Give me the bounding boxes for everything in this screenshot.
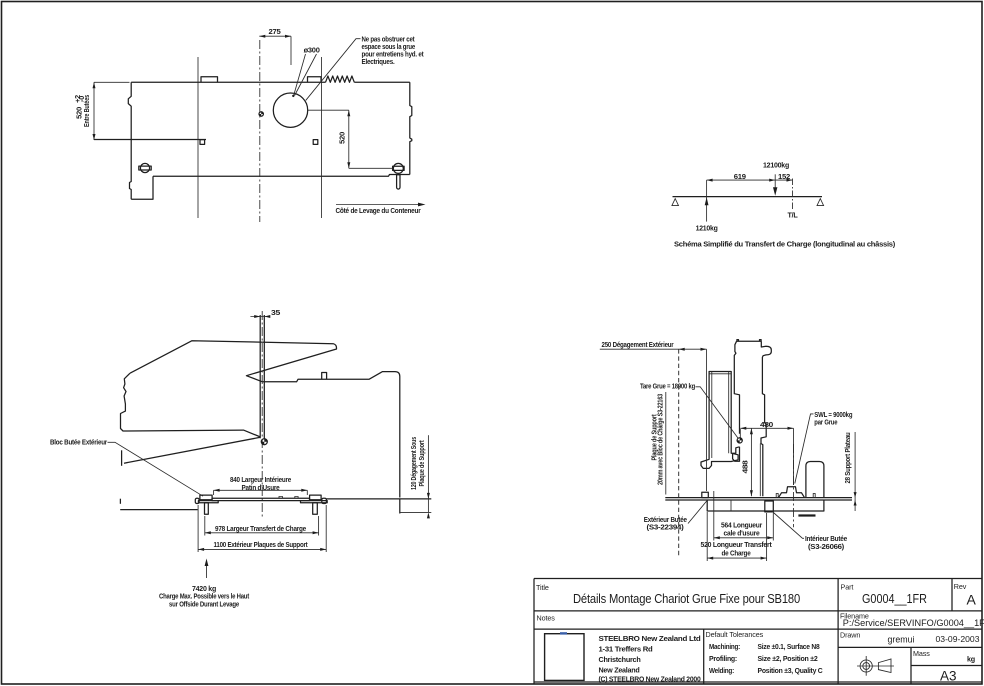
- transverse line 1: [197, 57, 199, 218]
- pivot symbol: [737, 438, 742, 443]
- inner mast column left edge: [734, 341, 739, 434]
- svg-text:New Zealand: New Zealand: [599, 665, 640, 674]
- svg-text:STEELBRO New Zealand Ltd: STEELBRO New Zealand Ltd: [599, 634, 701, 643]
- svg-text:Machining:: Machining:: [709, 642, 740, 651]
- chassis top edge left of break: [131, 81, 325, 83]
- svg-text:A3: A3: [940, 669, 957, 684]
- rotated text underline: [665, 392, 667, 495]
- svg-text:1-31 Treffers Rd: 1-31 Treffers Rd: [599, 645, 653, 654]
- svg-text:275: 275: [269, 27, 281, 36]
- exterior butee leader: [688, 501, 707, 524]
- bump ticks: [776, 494, 815, 498]
- section centerline: [793, 444, 795, 527]
- svg-text:Christchurch: Christchurch: [599, 655, 641, 664]
- svg-text:de Charge: de Charge: [722, 548, 751, 557]
- end cap right: [322, 498, 327, 503]
- dim 28 line: [854, 432, 856, 511]
- dim entre-butees arrows: [93, 82, 96, 140]
- ELEVATION-VIEW: [50, 308, 431, 609]
- T/L centerline: [792, 179, 794, 212]
- support base left tick: [119, 499, 121, 504]
- svg-text:480: 480: [760, 420, 773, 429]
- deck plate: [665, 498, 852, 500]
- crane body outline: [130, 341, 400, 514]
- crane body left edge: [121, 373, 261, 437]
- inner mast inner right line: [759, 444, 761, 497]
- svg-text:Part: Part: [841, 583, 854, 592]
- dim 1100: [198, 505, 326, 552]
- svg-text:1210kg: 1210kg: [696, 224, 718, 233]
- inner mast lower left: [733, 447, 740, 462]
- deck tab: [322, 373, 327, 380]
- leg left: [205, 503, 209, 514]
- svg-text:gremui: gremui: [888, 635, 915, 645]
- logo box: [545, 634, 584, 681]
- block right: [310, 495, 322, 500]
- chassis top edge right of break: [354, 81, 410, 83]
- dim 275 line: [259, 36, 291, 65]
- tare grue leader: [696, 387, 739, 439]
- dim 488: [750, 428, 752, 496]
- end cap left: [195, 498, 199, 503]
- svg-text:Notes: Notes: [537, 613, 556, 622]
- support triangle right: [817, 199, 824, 206]
- inner stop line: [94, 139, 206, 141]
- svg-text:20mm avec Bloc de Charge S3-22: 20mm avec Bloc de Charge S3-22163: [655, 394, 664, 485]
- svg-text:12100kg: 12100kg: [763, 160, 789, 169]
- support base left lower line: [120, 509, 198, 511]
- inner mast column right edge: [761, 341, 771, 496]
- stop square 2: [313, 140, 318, 145]
- transverse line 2: [321, 57, 323, 218]
- SWL leader: [795, 414, 814, 484]
- outrigger end plate: [121, 450, 123, 466]
- lifting side arrow: [336, 204, 420, 206]
- svg-text:cale d'usure: cale d'usure: [724, 528, 760, 537]
- svg-text:Position ±3, Quality C: Position ±3, Quality C: [758, 666, 823, 675]
- outer mast inner lines: [709, 372, 731, 459]
- svg-text:G0004__1FR: G0004__1FR: [862, 591, 927, 606]
- svg-text:Size ±2, Position ±2: Size ±2, Position ±2: [758, 654, 818, 663]
- LOAD-SCHEMATIC: [672, 160, 896, 248]
- svg-text:Profiling:: Profiling:: [709, 654, 737, 663]
- twistlock left: [139, 163, 151, 172]
- PLAN-VIEW: [73, 27, 426, 222]
- svg-text:(S3-26066): (S3-26066): [808, 542, 845, 551]
- title block frame: [534, 579, 982, 685]
- svg-text:A: A: [967, 592, 977, 608]
- bloc butee leader: [108, 442, 204, 496]
- reaction arrow 1210kg: [706, 180, 708, 222]
- dashed datum line: [678, 349, 680, 557]
- wear pad bar: [212, 498, 310, 500]
- dim entre-butees line: [94, 82, 130, 140]
- dim 520: [707, 512, 766, 561]
- svg-text:Welding:: Welding:: [709, 666, 734, 675]
- block left: [200, 495, 212, 500]
- svg-text:Détails Montage Chariot Grue F: Détails Montage Chariot Grue Fixe pour S…: [573, 591, 800, 606]
- dim 520 vertical: [307, 110, 393, 168]
- projection symbol circle: [857, 656, 894, 676]
- svg-text:Plaque de Support: Plaque de Support: [417, 440, 426, 487]
- svg-text:Entre Butées: Entre Butées: [82, 95, 91, 127]
- tab 2 on top edge: [308, 77, 322, 83]
- svg-text:Size ±0.1, Surface N8: Size ±0.1, Surface N8: [758, 642, 820, 651]
- dim 35: [250, 316, 269, 318]
- TITLE-BLOCK: [534, 579, 984, 685]
- D300 leader: [294, 54, 317, 96]
- svg-text:Rev: Rev: [954, 582, 967, 591]
- svg-text:sur Offside Durant Levage: sur Offside Durant Levage: [169, 599, 239, 608]
- stop square 1: [200, 140, 205, 145]
- svg-text:03-09-2003: 03-09-2003: [936, 634, 980, 644]
- max load arrow: [206, 563, 208, 578]
- dim 275 arrows: [259, 35, 291, 38]
- svg-text:Patin d'Usure: Patin d'Usure: [242, 483, 280, 492]
- note leader: [306, 39, 361, 101]
- kingpin symbol: [259, 112, 263, 116]
- break zigzag: [326, 76, 355, 82]
- dim 480: [740, 428, 793, 485]
- load arrow 12100kg: [774, 174, 776, 188]
- chassis right edge: [410, 82, 412, 174]
- interior butee block: [765, 501, 774, 512]
- view centerline: [261, 311, 263, 519]
- svg-text:Default Tolerances: Default Tolerances: [706, 630, 764, 639]
- svg-text:978 Largeur Transfert de Charg: 978 Largeur Transfert de Charge: [215, 524, 306, 533]
- leg right: [313, 503, 318, 514]
- hole circle D300: [273, 93, 307, 127]
- projection symbol cone: [878, 659, 891, 673]
- SECTION-VIEW: [600, 340, 857, 561]
- dim 520 arrows: [347, 110, 350, 168]
- chassis left edge: [128, 82, 131, 199]
- hole center dot: [292, 95, 294, 97]
- svg-text:1100 Extérieur Plaques de Supp: 1100 Extérieur Plaques de Support: [214, 540, 309, 549]
- svg-text:Drawn: Drawn: [840, 631, 860, 640]
- outrigger wing top edge: [124, 437, 260, 463]
- svg-text:T/L: T/L: [788, 211, 799, 220]
- dim 250: [600, 348, 707, 350]
- svg-text:Tare Grue = 18900 kg: Tare Grue = 18900 kg: [640, 382, 695, 391]
- svg-text:Bloc Butée Extérieur: Bloc Butée Extérieur: [50, 438, 107, 447]
- svg-text:28 Support Plateau: 28 Support Plateau: [843, 433, 852, 484]
- svg-text:152: 152: [778, 172, 790, 181]
- wear pad ticks: [279, 497, 298, 499]
- svg-text:ø300: ø300: [304, 46, 320, 55]
- svg-text:Title: Title: [536, 583, 549, 592]
- mast post: [260, 315, 264, 439]
- interior butee leader: [772, 512, 804, 539]
- svg-text:Schéma Simplifié du Transfert: Schéma Simplifié du Transfert de Charge …: [674, 239, 896, 248]
- chassis left lower step: [131, 176, 153, 199]
- SWL load bump: [779, 487, 805, 498]
- dim 840: [214, 490, 308, 495]
- pivot symbol: [261, 439, 267, 445]
- beam: [673, 196, 823, 198]
- stiffener bar: [798, 514, 815, 516]
- tab 1 on top edge: [201, 77, 218, 83]
- support triangle left: [672, 199, 679, 206]
- ext line 250: [706, 349, 708, 491]
- under-plate line right: [400, 511, 432, 513]
- dim 564: [714, 491, 774, 541]
- centerline: [259, 40, 261, 222]
- svg-text:par Grue: par Grue: [814, 418, 837, 427]
- logo mark: [560, 632, 567, 634]
- svg-text:kg: kg: [967, 655, 975, 664]
- plateau support column: [806, 462, 824, 498]
- svg-text:250 Dégagement Extérieur: 250 Dégagement Extérieur: [602, 340, 674, 349]
- svg-text:Mass: Mass: [913, 649, 930, 658]
- support plate left: [198, 501, 218, 503]
- svg-text:P:/Service/SERVINFO/G0004__1F: P:/Service/SERVINFO/G0004__1F: [843, 618, 984, 628]
- deck line right: [326, 498, 431, 500]
- svg-text:619: 619: [734, 172, 746, 181]
- exterior butee block: [702, 492, 709, 497]
- svg-text:35: 35: [271, 308, 280, 317]
- dim 120 line: [427, 435, 429, 512]
- support box inner line: [730, 500, 732, 511]
- outer mast column: [701, 372, 738, 469]
- svg-text:(C) STEELBRO New Zealand 2000: (C) STEELBRO New Zealand 2000: [599, 675, 701, 684]
- dim 152: [787, 179, 793, 182]
- dim 619: [707, 179, 793, 181]
- support plate right: [301, 501, 328, 503]
- svg-text:Côté de Levage du Conteneur: Côté de Levage du Conteneur: [336, 206, 421, 215]
- svg-text:Electriques.: Electriques.: [362, 57, 395, 66]
- support box: [707, 500, 824, 511]
- inner mast top edge: [737, 340, 762, 342]
- svg-text:488: 488: [741, 460, 750, 473]
- chassis bottom right: [153, 175, 410, 177]
- svg-text:(S3-22394): (S3-22394): [647, 522, 685, 531]
- twistlock right: [393, 163, 405, 189]
- svg-text:520: 520: [338, 132, 347, 144]
- dim 978: [205, 516, 319, 536]
